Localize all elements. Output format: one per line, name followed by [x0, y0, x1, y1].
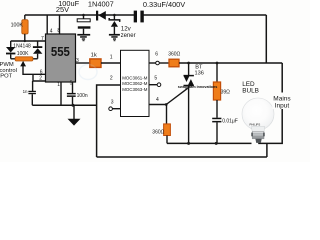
svg-text:1k: 1k: [91, 52, 97, 58]
svg-text:zener: zener: [121, 33, 136, 39]
svg-text:Mains: Mains: [273, 95, 291, 102]
IC U1 555 timer: [46, 15, 48, 34]
wire bulb right / mains drop: [258, 63, 282, 143]
ground (below zener): [109, 34, 120, 36]
transistor Q1 triac BT136: [188, 63, 190, 76]
resistor R4 39 ohm snubber: [216, 63, 218, 82]
svg-text:136: 136: [195, 71, 204, 77]
svg-text:2: 2: [110, 75, 113, 81]
wire right drop to triac line: [265, 15, 267, 64]
svg-text:swagatam innovations: swagatam innovations: [178, 85, 218, 89]
svg-text:360Ω: 360Ω: [152, 130, 164, 136]
svg-text:PHILIPS: PHILIPS: [250, 122, 261, 126]
svg-text:BT: BT: [195, 64, 203, 70]
wire pins 6/2 link: [33, 74, 46, 81]
svg-text:100n: 100n: [77, 93, 88, 99]
svg-text:MOC3061-M: MOC3061-M: [122, 76, 147, 81]
svg-text:POT: POT: [0, 74, 12, 80]
svg-text:6: 6: [155, 52, 158, 58]
wire top rail left segment: [25, 14, 135, 16]
svg-text:555: 555: [51, 44, 70, 59]
svg-text:7: 7: [41, 36, 44, 42]
diode D3 1N4148 right: [37, 41, 39, 46]
svg-text:1: 1: [110, 54, 113, 60]
svg-text:1N4007: 1N4007: [88, 0, 114, 9]
svg-text:3: 3: [111, 99, 114, 105]
IC U2 MOC3061-M optocoupler: [121, 50, 150, 116]
svg-text:12v: 12v: [121, 26, 132, 33]
svg-text:0.01μF: 0.01μF: [222, 119, 238, 125]
svg-text:360Ω: 360Ω: [168, 51, 180, 57]
resistor R5 360 (pin4): [166, 105, 168, 125]
wire bottom return: [97, 156, 267, 158]
svg-text:4: 4: [156, 97, 159, 103]
svg-text:1n: 1n: [23, 89, 28, 94]
node junction 100n/rail: [72, 104, 75, 107]
resistor R2 1k: [76, 62, 90, 64]
svg-text:25V: 25V: [56, 5, 69, 14]
wire gate diagonal: [166, 88, 188, 104]
svg-text:1: 1: [57, 82, 60, 88]
svg-text:1N4148: 1N4148: [13, 43, 31, 49]
wire ground rail: [32, 104, 96, 106]
svg-text:0.33uF/400V: 0.33uF/400V: [143, 0, 185, 9]
svg-text:100K: 100K: [11, 22, 24, 28]
wire pin1 down: [60, 82, 62, 105]
capacitor C3 1n: [32, 81, 34, 91]
node Mains Input label: [272, 93, 293, 110]
wire top rail right segment: [142, 14, 266, 16]
potentiometer 100K PWM control POT: [11, 58, 16, 60]
diode D1 1N4007: [96, 11, 98, 21]
capacitor C4 100n: [72, 82, 74, 93]
resistor R3 360 (pin6): [169, 59, 179, 67]
svg-text:39Ω: 39Ω: [221, 89, 231, 95]
svg-text:BULB: BULB: [242, 88, 259, 95]
node junction R1/pin7: [24, 40, 26, 42]
LED bulb lamp: [242, 98, 274, 130]
svg-text:Input: Input: [275, 103, 290, 110]
wire pin7 row: [11, 40, 46, 42]
svg-text:MOC3063-M: MOC3063-M: [122, 87, 147, 92]
capacitor C5 0.01uF: [212, 118, 221, 120]
pot wiper arrow: [20, 61, 26, 67]
wire MT1 bottom row: [167, 142, 252, 144]
svg-text:2: 2: [39, 75, 42, 81]
ground (arrow symbol): [73, 105, 75, 119]
ground (below C1): [77, 34, 90, 36]
capacitor C1 100uF 25V: [82, 14, 85, 17]
svg-text:5: 5: [154, 76, 157, 82]
zener Z1 12v: [113, 14, 116, 17]
resistor R1 100K: [24, 15, 26, 20]
svg-text:100K: 100K: [17, 51, 29, 57]
capacitor C2 0.33uF/400V: [134, 11, 137, 23]
wire MT2 row: [179, 62, 282, 64]
svg-text:8: 8: [57, 28, 60, 34]
svg-text:MOC3062-M: MOC3062-M: [122, 81, 147, 86]
diode D2 1N4148 left: [10, 41, 12, 47]
